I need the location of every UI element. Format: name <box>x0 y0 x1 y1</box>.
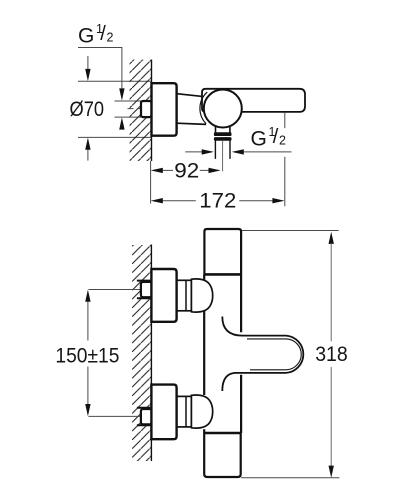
dimension 92 line <box>163 169 209 171</box>
svg-text:150±15: 150±15 <box>55 343 119 367</box>
nipple lower arrow up <box>119 117 124 129</box>
dimension 150±15 upper arrow <box>85 290 90 302</box>
wall line (top view) <box>151 60 153 161</box>
dimension 318 lower arrow <box>330 367 332 466</box>
wall extension line down to dimensions <box>150 161 152 204</box>
lower hex nut flats <box>137 408 152 426</box>
lower escutcheon (front view) <box>151 385 176 440</box>
valve knob circle <box>204 90 242 128</box>
dimension 318 upper arrow <box>329 232 334 244</box>
label G1/2 (outlet) text <box>251 125 287 151</box>
172 left arrow <box>151 198 163 203</box>
lower union bulge <box>191 395 212 428</box>
body right edge <box>240 274 242 433</box>
nipple extension lines (G1/2 thread diameter) <box>115 101 142 117</box>
handle inner highlight line <box>247 339 301 370</box>
svg-text:Ø70: Ø70 <box>70 97 105 121</box>
outlet collar (nut) <box>214 132 232 136</box>
neck between escutcheon and valve body <box>177 94 206 125</box>
leader arrow down to nipple top <box>119 88 124 100</box>
svg-text:318: 318 <box>315 342 348 366</box>
dimension Ø70 upper arrow <box>87 56 89 69</box>
leader line from G1/2 label <box>78 48 122 89</box>
temperature handle (front view) <box>222 317 303 392</box>
92 right arrow <box>209 168 221 173</box>
G1/2 outlet arrows <box>185 151 202 153</box>
Ø70 extension lines <box>78 81 152 137</box>
svg-text:2: 2 <box>279 134 286 148</box>
wall nipple (G1/2 square) <box>141 101 152 117</box>
label G1/2 (upper wall connection) text <box>78 22 114 48</box>
upper hex nut <box>141 282 152 297</box>
lever handle (side view) <box>202 89 305 112</box>
escutcheon (side view, Ø70 flange) <box>152 83 177 136</box>
upper hex nut flats <box>137 281 152 299</box>
outlet centerline <box>222 141 224 171</box>
lower connector cylinder <box>177 396 192 427</box>
lower hex nut <box>141 409 152 424</box>
172 right arrow <box>272 198 284 203</box>
wall hatching (front view) <box>132 245 151 461</box>
svg-text:/: / <box>273 126 279 148</box>
body bottom joint line <box>204 432 241 435</box>
dimension 150±15 lower arrow <box>87 367 89 405</box>
svg-text:G: G <box>251 128 267 151</box>
dimension 172 line <box>163 200 273 202</box>
body left edge <box>203 274 205 433</box>
dashed centerline of wall nipple <box>128 108 151 110</box>
upper union bulge <box>191 279 212 312</box>
wall line (front view) <box>150 245 152 462</box>
upper escutcheon (front view) <box>151 269 176 322</box>
crescent arc behind valve knob <box>200 92 207 124</box>
92 left arrow <box>151 168 163 173</box>
svg-text:92: 92 <box>174 158 199 182</box>
svg-text:2: 2 <box>107 31 114 45</box>
wall hatching (top view) <box>130 60 152 161</box>
svg-text:/: / <box>100 23 106 45</box>
outlet neck under knob <box>216 126 230 133</box>
318 top extension line <box>242 230 339 232</box>
lower union centerline <box>88 415 151 417</box>
body top joint line <box>204 273 241 276</box>
upper connector cylinder <box>177 280 192 311</box>
extension line from lever end down to 172 dimension <box>284 113 286 206</box>
svg-text:172: 172 <box>199 189 236 213</box>
body top block <box>204 229 241 274</box>
dimension Ø70 lower arrow <box>87 150 89 161</box>
body bottom block <box>204 433 241 477</box>
svg-text:G: G <box>78 25 94 48</box>
318 bottom extension line <box>241 477 340 479</box>
upper union centerline <box>88 289 151 291</box>
outlet pipe (G1/2 thread) <box>215 140 230 159</box>
